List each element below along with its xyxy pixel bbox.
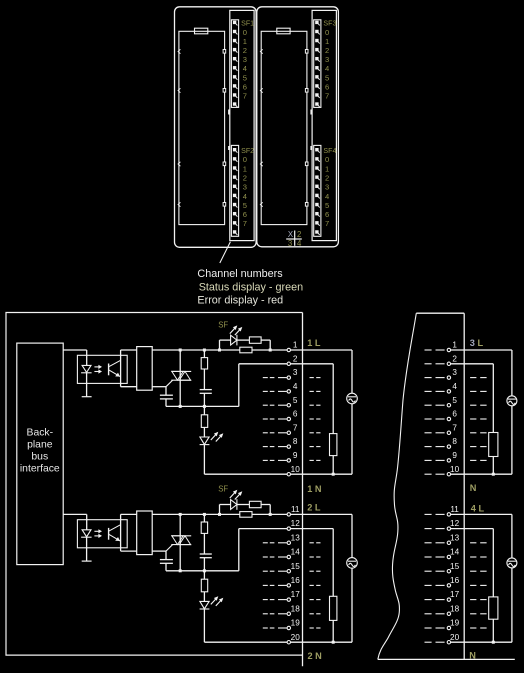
svg-text:Back-: Back- (27, 427, 54, 438)
L rail group1 (152, 349, 287, 351)
terminal stubs group3 (425, 349, 432, 351)
module side clips (SF1) (228, 110, 230, 115)
svg-text:5: 5 (325, 73, 329, 82)
svg-text:5: 5 (243, 73, 247, 82)
svg-text:3: 3 (325, 183, 329, 192)
svg-text:7: 7 (325, 219, 329, 228)
svg-text:X: X (288, 230, 294, 239)
SF resistor group2 (237, 504, 250, 506)
terminal circles group2 (287, 513, 290, 516)
svg-text:7: 7 (243, 219, 247, 228)
backplane bus interface box (17, 343, 63, 564)
optocoupler group1 LED (82, 365, 91, 372)
svg-text:4: 4 (325, 192, 329, 201)
svg-text:SF1: SF1 (241, 20, 254, 28)
svg-text:16: 16 (450, 576, 460, 585)
svg-text:0: 0 (325, 28, 329, 37)
svg-text:7: 7 (243, 91, 247, 100)
svg-text:4: 4 (243, 192, 247, 201)
optocoupler group2 light arrows (94, 530, 98, 532)
torn sheet bottom edge (378, 658, 515, 660)
AC source group4 (507, 558, 517, 568)
status LED branch group1 (203, 406, 205, 414)
pane edge notches (SF3) (260, 49, 262, 53)
optocoupler group1 box (77, 355, 127, 383)
svg-text:SF2: SF2 (241, 147, 254, 155)
svg-text:11: 11 (291, 505, 300, 514)
svg-text:5: 5 (243, 201, 247, 210)
bottom rail group1 (166, 405, 239, 407)
torn sheet top edge (416, 312, 464, 314)
svg-text:2 L: 2 L (307, 503, 321, 513)
load group1 (291, 363, 334, 365)
svg-text:4 L: 4 L (471, 504, 485, 514)
svg-text:16: 16 (291, 576, 301, 585)
svg-text:18: 18 (291, 604, 301, 613)
load group4 (451, 528, 494, 530)
rail resistor group1 (240, 347, 252, 353)
svg-text:2: 2 (243, 173, 247, 182)
L feed wire group3 (451, 349, 512, 351)
svg-text:10: 10 (450, 465, 460, 474)
svg-text:14: 14 (291, 548, 301, 557)
svg-text:0: 0 (325, 155, 329, 164)
svg-text:SF4: SF4 (323, 147, 336, 155)
pane top clip (SF3) (277, 28, 290, 34)
driver block group2 (137, 511, 153, 555)
optocoupler group2 LED cathode to ground (86, 537, 88, 561)
svg-text:4: 4 (325, 64, 329, 73)
supply wires group1 right side (291, 349, 352, 351)
svg-text:5: 5 (293, 396, 298, 405)
ground bar group1 (82, 396, 92, 398)
dashed channel wires group2 (263, 542, 268, 544)
svg-text:3: 3 (243, 183, 247, 192)
svg-text:interface: interface (20, 464, 60, 475)
svg-text:7: 7 (452, 423, 457, 432)
triac group1 (179, 350, 181, 406)
svg-text:13: 13 (291, 533, 301, 542)
svg-text:8: 8 (293, 437, 298, 446)
phototransistor output wires group1 (120, 350, 122, 387)
svg-text:Channel numbers: Channel numbers (197, 268, 283, 280)
status LED to terminal wire group1 (203, 445, 205, 475)
wire backplane to optocoupler group2 (63, 513, 87, 515)
LED window SF2 (231, 145, 238, 236)
AC source group2 (347, 558, 358, 569)
svg-text:3: 3 (288, 239, 292, 248)
N return group2 (291, 641, 352, 643)
optocoupler group2 box (77, 520, 127, 548)
torn sheet edge (378, 313, 417, 659)
svg-text:17: 17 (291, 590, 301, 599)
optocoupler group1 LED cathode to ground (86, 373, 88, 397)
svg-text:10: 10 (291, 465, 301, 474)
svg-text:6: 6 (293, 410, 298, 419)
ground bar group2 (82, 560, 92, 562)
snubber resistor group2 (203, 514, 205, 522)
L rail group2 (152, 513, 287, 515)
snubber capacitor group1 (203, 369, 205, 390)
N return group1 (291, 473, 352, 475)
terminal bus line groups 3-4 (463, 313, 465, 659)
svg-text:SF: SF (218, 320, 228, 329)
driver block group1 (137, 347, 153, 391)
svg-text:3: 3 (243, 55, 247, 64)
svg-text:3 L: 3 L (470, 338, 484, 348)
svg-text:1: 1 (293, 341, 298, 350)
svg-text:20: 20 (450, 633, 460, 642)
pane top clip (SF1) (195, 28, 208, 34)
svg-text:1 L: 1 L (307, 338, 321, 348)
svg-text:N: N (469, 650, 476, 660)
N return wire group2 (238, 529, 240, 571)
gate wire group2 (152, 550, 166, 552)
svg-text:15: 15 (450, 562, 460, 571)
terminal circles group1 (287, 348, 290, 351)
svg-text:7: 7 (325, 91, 329, 100)
SF LED group2 (219, 505, 221, 515)
bottom rail group2 (166, 570, 239, 572)
svg-text:3: 3 (325, 55, 329, 64)
callout leader line (220, 242, 231, 263)
svg-text:1: 1 (243, 37, 247, 46)
svg-text:18: 18 (450, 604, 460, 613)
module side clips (SF3) (310, 110, 312, 115)
svg-text:2 N: 2 N (308, 651, 323, 661)
svg-text:SF3: SF3 (323, 20, 336, 28)
svg-text:4: 4 (293, 382, 298, 391)
svg-text:5: 5 (452, 396, 457, 405)
svg-text:bus: bus (31, 452, 48, 463)
svg-text:2: 2 (293, 354, 298, 363)
svg-text:15: 15 (291, 562, 301, 571)
LED panel (SF3/SF4) (312, 10, 336, 240)
svg-text:14: 14 (450, 548, 460, 557)
svg-text:4: 4 (297, 239, 302, 248)
svg-text:1 N: 1 N (307, 484, 322, 494)
svg-text:2: 2 (325, 173, 329, 182)
optocoupler group1 phototransistor (108, 364, 110, 376)
L feed wire group4 (451, 513, 512, 515)
svg-text:6: 6 (243, 82, 247, 91)
svg-text:5: 5 (325, 201, 329, 210)
schematic outer border (6, 313, 303, 656)
gate capacitor group1 (165, 387, 167, 396)
terminal bus line groups 1-2 (302, 313, 304, 667)
svg-text:8: 8 (452, 437, 457, 446)
load group3 (451, 363, 494, 365)
SF LED group1 (219, 340, 221, 350)
svg-text:3: 3 (293, 368, 298, 377)
svg-text:9: 9 (452, 451, 457, 460)
svg-text:12: 12 (450, 519, 460, 528)
dashed channel wires group1 (263, 377, 268, 379)
svg-text:12: 12 (291, 519, 301, 528)
optocoupler group2 LED (82, 530, 91, 537)
svg-text:1: 1 (325, 37, 329, 46)
triac group2 (179, 514, 181, 570)
svg-text:SF: SF (218, 485, 228, 494)
svg-text:6: 6 (325, 82, 329, 91)
N return wire group1 (238, 364, 240, 407)
svg-text:6: 6 (325, 210, 329, 219)
wire backplane to optocoupler group1 (63, 349, 87, 351)
svg-text:plane: plane (27, 439, 53, 450)
LED window SF4 (314, 145, 321, 236)
N return group4 (451, 641, 512, 643)
snubber capacitor group2 (203, 533, 205, 554)
svg-text:6: 6 (243, 210, 247, 219)
svg-text:Error display - red: Error display - red (197, 295, 283, 307)
module body (SF1) (175, 7, 257, 248)
snubber resistor group1 (203, 350, 205, 358)
svg-text:20: 20 (291, 633, 301, 642)
svg-text:3: 3 (452, 368, 457, 377)
svg-text:13: 13 (450, 533, 460, 542)
svg-text:N: N (470, 483, 477, 493)
AC source group3 (507, 396, 517, 406)
svg-text:2: 2 (243, 46, 247, 55)
svg-text:4: 4 (243, 64, 247, 73)
svg-text:1: 1 (325, 164, 329, 173)
pane edge notches (SF1) (178, 49, 180, 53)
LED window SF3 (314, 20, 321, 108)
svg-text:6: 6 (452, 410, 457, 419)
status LED branch group2 (203, 571, 205, 579)
gate capacitor group2 (165, 551, 167, 560)
svg-text:2: 2 (325, 46, 329, 55)
svg-text:1: 1 (452, 341, 457, 350)
svg-text:Status display - green: Status display - green (199, 281, 303, 293)
svg-text:1: 1 (243, 164, 247, 173)
load group2 (291, 528, 334, 530)
svg-text:7: 7 (293, 423, 298, 432)
svg-text:9: 9 (293, 451, 298, 460)
svg-text:11: 11 (450, 505, 459, 514)
svg-text:4: 4 (452, 382, 457, 391)
phototransistor output wires group2 (120, 514, 122, 551)
SF resistor group1 (237, 339, 250, 341)
rail resistor group2 (240, 512, 252, 518)
optocoupler group2 phototransistor (108, 528, 110, 540)
svg-text:0: 0 (243, 28, 247, 37)
LED window SF1 (231, 20, 238, 108)
gate wire group1 (152, 386, 166, 388)
svg-text:2: 2 (297, 230, 301, 239)
supply wires group2 right side (291, 513, 352, 515)
module body (SF3) (257, 7, 339, 247)
svg-text:2: 2 (452, 354, 457, 363)
svg-text:19: 19 (291, 619, 301, 628)
svg-text:0: 0 (243, 155, 247, 164)
terminal stubs group4 (425, 513, 432, 515)
module front pane (SF1) (179, 31, 225, 224)
status LED to terminal wire group2 (203, 609, 205, 642)
module front pane (SF3) (261, 31, 307, 224)
svg-text:17: 17 (450, 590, 460, 599)
optocoupler group1 light arrows (94, 366, 98, 368)
svg-text:19: 19 (450, 619, 460, 628)
N return group3 (451, 473, 512, 475)
AC source group1 (347, 393, 358, 404)
LED panel (SF1/SF2) (230, 10, 254, 240)
